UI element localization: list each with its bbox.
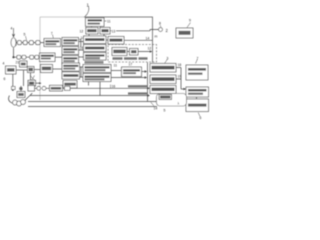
box M monitor bbox=[176, 28, 193, 38]
label 11 bbox=[104, 20, 107, 22]
bead i2 bbox=[23, 41, 27, 45]
svg-text:11: 11 bbox=[107, 20, 111, 24]
svg-text:7: 7 bbox=[197, 57, 199, 61]
PD box P2 bbox=[150, 75, 176, 84]
wire D right bbox=[124, 39, 153, 41]
bead i4 bbox=[36, 41, 40, 45]
sample stage bbox=[157, 94, 187, 107]
svg-text:8: 8 bbox=[159, 22, 161, 26]
labels 18 19 bbox=[176, 68, 181, 80]
svg-text:23: 23 bbox=[29, 82, 33, 86]
wires H bbox=[80, 67, 84, 77]
junction mark bbox=[12, 87, 16, 90]
coil loops bbox=[9, 96, 16, 104]
box C bbox=[62, 56, 79, 65]
svg-text:λ: λ bbox=[178, 102, 180, 106]
box K3 bbox=[41, 65, 53, 73]
svg-text:3: 3 bbox=[167, 57, 169, 61]
box K1 bbox=[20, 61, 28, 67]
box D2 bbox=[108, 37, 124, 45]
svg-text:5: 5 bbox=[164, 109, 166, 113]
bead k2 bbox=[42, 86, 46, 90]
input arrow bbox=[12, 28, 14, 37]
label 13 bbox=[110, 30, 112, 32]
stubs top cluster bbox=[89, 26, 104, 36]
svg-text:6: 6 bbox=[4, 77, 6, 81]
svg-text:9: 9 bbox=[189, 19, 191, 23]
svg-text:m: m bbox=[155, 35, 158, 39]
label 6 bbox=[198, 113, 200, 117]
box D bbox=[84, 36, 107, 44]
PD box P3 bbox=[150, 86, 176, 94]
svg-text:5: 5 bbox=[24, 33, 26, 37]
svg-text:6: 6 bbox=[200, 116, 202, 120]
diagonal marks bbox=[30, 76, 35, 81]
wire M2-C bbox=[55, 56, 62, 58]
outer system box 1 bbox=[40, 16, 84, 18]
coil box bbox=[17, 92, 25, 98]
box G2 bbox=[62, 72, 80, 79]
svg-text:4: 4 bbox=[11, 27, 13, 31]
svg-text:18: 18 bbox=[178, 63, 182, 67]
label 14 bbox=[79, 39, 82, 41]
port circle 2 bbox=[159, 28, 163, 32]
svg-text:2: 2 bbox=[166, 28, 169, 33]
svg-text:4: 4 bbox=[3, 62, 5, 66]
box K2 bbox=[28, 67, 35, 73]
box U11 bbox=[86, 18, 105, 27]
stub R2-R3 bbox=[196, 97, 198, 99]
box G1 bbox=[62, 63, 80, 71]
box M2 bbox=[40, 53, 56, 62]
bus B4 bbox=[28, 106, 157, 108]
wires columns bbox=[79, 39, 84, 58]
vertical K2 down bbox=[30, 73, 32, 81]
dashed box bbox=[108, 45, 157, 63]
box R1 bbox=[186, 65, 208, 80]
box X1 bbox=[122, 67, 142, 77]
wire H1 to X1 bbox=[111, 70, 122, 72]
label 10b bbox=[110, 85, 112, 89]
stage inner box bbox=[159, 95, 172, 100]
wire K3 out bbox=[53, 68, 63, 70]
element b3 bbox=[65, 86, 71, 90]
wire K4 bbox=[36, 82, 41, 84]
svg-text:11: 11 bbox=[114, 64, 118, 68]
bead j3 bbox=[30, 55, 34, 59]
box L1 bbox=[6, 66, 17, 74]
dot junction bbox=[12, 89, 14, 91]
bead j2 bbox=[22, 55, 26, 59]
label 5 bbox=[26, 36, 27, 40]
junction dot bbox=[12, 56, 14, 58]
wire row2 bbox=[14, 56, 40, 58]
svg-text:16: 16 bbox=[80, 46, 84, 50]
svg-text:12: 12 bbox=[80, 30, 84, 34]
drops to bus bbox=[89, 82, 101, 96]
box b2 bbox=[50, 85, 63, 91]
box H2 bbox=[83, 74, 111, 82]
bus B2 bbox=[30, 93, 149, 95]
bead i3 bbox=[29, 41, 33, 45]
box R3 bbox=[186, 99, 209, 112]
svg-text:1: 1 bbox=[87, 3, 90, 8]
bead i1 bbox=[17, 41, 21, 45]
bus B3 bbox=[28, 101, 157, 103]
bead j1 bbox=[17, 55, 21, 59]
collimator bar bbox=[15, 40, 17, 46]
label 9 leader bbox=[187, 23, 191, 28]
label 7 bbox=[52, 35, 55, 39]
svg-text:13: 13 bbox=[112, 30, 116, 34]
box K4 bbox=[28, 80, 36, 86]
svg-text:12: 12 bbox=[148, 47, 152, 51]
bead k1 bbox=[37, 86, 41, 90]
svg-text:14: 14 bbox=[154, 106, 158, 110]
box U13 bbox=[100, 27, 110, 34]
wire L1 out bbox=[16, 69, 28, 71]
box H1 bbox=[83, 65, 111, 73]
wire X1 right bbox=[142, 71, 146, 73]
vertical feed bbox=[147, 63, 149, 102]
box U12 bbox=[86, 27, 98, 34]
wire to port 2 bbox=[116, 30, 159, 31]
box G3 bbox=[63, 81, 77, 89]
bottom chain box b1 bbox=[28, 86, 35, 92]
arrowheads buses bbox=[147, 87, 150, 97]
svg-text:16: 16 bbox=[112, 85, 116, 89]
bus labels bbox=[128, 85, 147, 87]
svg-text:17: 17 bbox=[129, 63, 133, 67]
PD box P1 bbox=[150, 64, 176, 73]
label 7b bbox=[196, 59, 198, 64]
box B bbox=[62, 47, 79, 55]
box S1 bbox=[112, 48, 127, 56]
box R2 bbox=[186, 87, 209, 97]
svg-text:7: 7 bbox=[51, 32, 53, 36]
lens L bbox=[11, 38, 16, 48]
wire row1 bbox=[16, 42, 44, 44]
feed to R2 bbox=[181, 68, 186, 90]
wire K2 out bbox=[34, 69, 41, 71]
box M1 bbox=[44, 39, 61, 47]
label 3 bbox=[165, 59, 168, 64]
vertical drop left bbox=[23, 71, 25, 87]
box S2 bbox=[130, 49, 139, 56]
box F bbox=[84, 53, 107, 61]
wires S bbox=[127, 51, 151, 53]
bead j4 bbox=[35, 55, 39, 59]
box E bbox=[84, 45, 107, 52]
caption bbox=[113, 57, 123, 59]
svg-text:14: 14 bbox=[146, 37, 150, 41]
label 1 leader bbox=[85, 6, 89, 17]
box A bbox=[62, 38, 79, 46]
wire H2 right bbox=[111, 77, 146, 79]
wire b bbox=[35, 87, 149, 89]
label 8 bbox=[160, 25, 161, 27]
